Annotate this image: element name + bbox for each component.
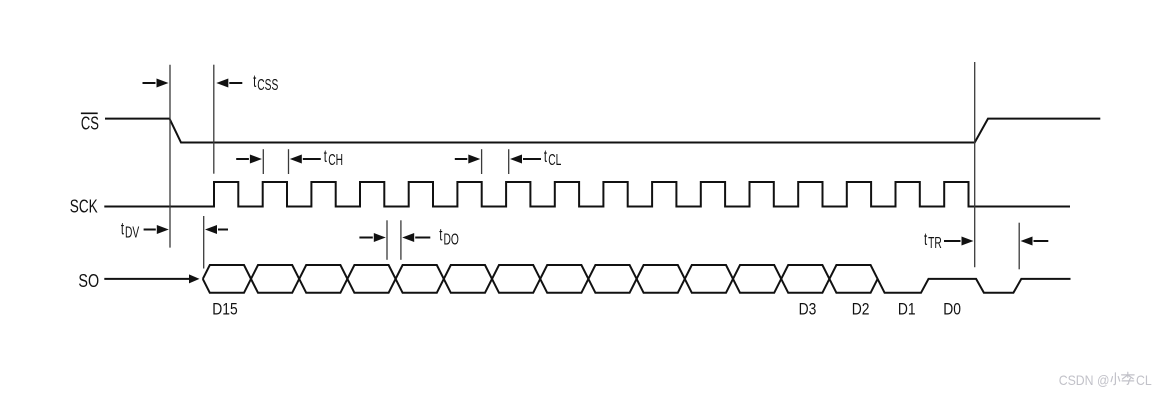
svg-text:CSS: CSS <box>257 76 278 94</box>
svg-text:CL: CL <box>548 151 561 169</box>
svg-text:t: t <box>253 73 256 92</box>
svg-text:D15: D15 <box>212 301 237 319</box>
svg-text:D1: D1 <box>898 301 916 319</box>
svg-text:CS: CS <box>81 113 99 134</box>
svg-text:t: t <box>439 226 442 245</box>
svg-text:SO: SO <box>78 270 99 291</box>
svg-text:t: t <box>121 220 124 239</box>
svg-text:D3: D3 <box>799 301 817 319</box>
svg-text:t: t <box>324 148 327 167</box>
svg-text:CL: CL <box>1136 372 1152 388</box>
svg-text:D2: D2 <box>852 301 870 319</box>
svg-text:DV: DV <box>125 223 139 241</box>
svg-text:CH: CH <box>328 151 343 169</box>
svg-text:TR: TR <box>928 234 942 252</box>
svg-text:D0: D0 <box>943 301 961 319</box>
svg-text:SCK: SCK <box>70 196 98 217</box>
svg-text:t: t <box>544 148 547 167</box>
svg-text:CSDN @: CSDN @ <box>1059 372 1110 388</box>
svg-text:t: t <box>924 231 927 250</box>
svg-text:DO: DO <box>444 230 459 248</box>
